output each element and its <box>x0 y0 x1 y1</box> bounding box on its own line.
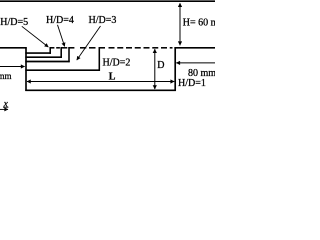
svg-text:H/D=4: H/D=4 <box>46 15 74 26</box>
svg-text:80 mm: 80 mm <box>188 68 215 79</box>
svg-text:L: L <box>109 71 116 82</box>
svg-text:H/D=1: H/D=1 <box>178 78 206 89</box>
svg-text:H/D=3: H/D=3 <box>89 15 117 26</box>
svg-text:x: x <box>3 99 9 109</box>
svg-text:H/D=2: H/D=2 <box>103 57 131 68</box>
svg-text:mm: mm <box>0 71 12 81</box>
svg-text:D: D <box>157 60 164 71</box>
svg-text:H= 60 mm: H= 60 mm <box>183 18 215 29</box>
svg-text:H/D=5: H/D=5 <box>0 17 28 28</box>
